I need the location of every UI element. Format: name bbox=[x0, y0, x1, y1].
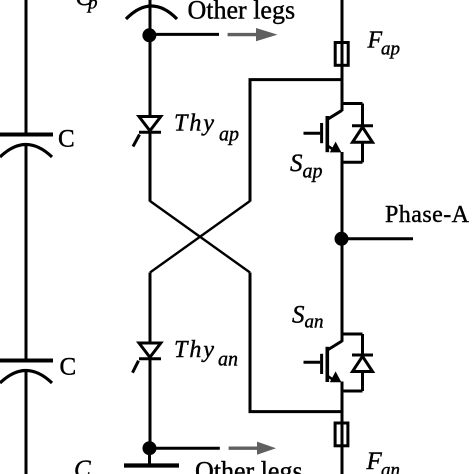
svg-text:Other legs: Other legs bbox=[188, 0, 296, 25]
svg-text:an: an bbox=[305, 312, 324, 333]
svg-text:an: an bbox=[381, 460, 400, 474]
svg-text:ap: ap bbox=[219, 124, 239, 146]
svg-text:S: S bbox=[290, 150, 303, 177]
svg-text:Thy: Thy bbox=[174, 111, 216, 137]
svg-text:ap: ap bbox=[381, 39, 400, 60]
svg-text:Phase-A: Phase-A bbox=[385, 202, 470, 228]
svg-text:F: F bbox=[366, 448, 383, 474]
svg-text:C: C bbox=[60, 354, 77, 381]
svg-text:p: p bbox=[86, 0, 98, 14]
svg-text:C: C bbox=[74, 456, 91, 474]
svg-text:Other legs: Other legs bbox=[195, 457, 303, 474]
svg-text:ap: ap bbox=[303, 161, 323, 183]
svg-text:S: S bbox=[292, 302, 305, 329]
svg-text:Thy: Thy bbox=[174, 337, 216, 363]
svg-text:an: an bbox=[218, 349, 238, 371]
svg-text:C: C bbox=[58, 125, 75, 152]
